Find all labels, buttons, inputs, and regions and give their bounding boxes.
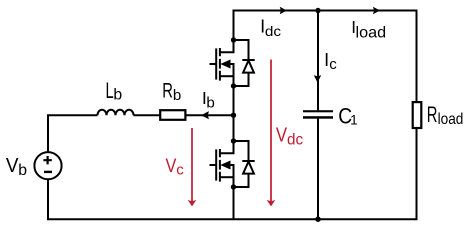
transistor Q2 (lower MOSFET) (210, 138, 255, 189)
voltage arrow Vdc (red, pointing down) (267, 60, 276, 207)
svg-text:b: b (173, 87, 181, 104)
svg-text:R: R (427, 102, 438, 127)
wire: inductor to resistor Rb (134, 114, 161, 116)
voltage source Vb (34, 152, 61, 179)
svg-text:1: 1 (350, 112, 358, 127)
current arrow Iload (pointing right) (373, 7, 380, 14)
svg-text:V: V (276, 125, 288, 147)
resistor Rb (160, 110, 185, 120)
node: Q2 source junction (231, 184, 236, 189)
wire: capacitor C1 to bottom rail (317, 119, 319, 219)
capacitor C1 (303, 110, 333, 119)
resistor Rload (413, 102, 422, 128)
svg-text:c: c (176, 162, 184, 179)
wire: Q2 source to bottom rail (233, 187, 235, 219)
svg-text:b: b (18, 162, 27, 179)
transistor Q1 (upper MOSFET) (210, 37, 255, 88)
svg-text:dc: dc (287, 132, 303, 149)
node: Q1 source junction (231, 83, 236, 88)
svg-text:R: R (162, 80, 173, 103)
inductor Lb (98, 110, 134, 115)
svg-text:b: b (206, 94, 214, 111)
wire: resistor Rb to bridge midpoint (186, 114, 234, 116)
body diode D2 (234, 141, 255, 187)
polarity marks of Vb (43, 156, 52, 172)
node: bottom rail / capacitor junction (315, 217, 320, 222)
svg-text:c: c (329, 56, 337, 73)
current arrow Ic (pointing down) (314, 75, 321, 82)
wire: Vb negative lead, bottom rail, lower right vertical (48, 129, 417, 220)
svg-text:dc: dc (265, 23, 281, 39)
body diode D1 (234, 40, 255, 86)
node: top rail / capacitor junction (315, 8, 320, 13)
wire: bridge top vertical, top rail, upper right vertical (234, 11, 417, 102)
wire: Vb positive lead up and across to inductor (48, 115, 98, 152)
voltage arrow Vc (red, pointing down) (188, 128, 197, 206)
current arrow Ib (pointing left) (201, 111, 209, 119)
svg-text:load: load (438, 111, 464, 128)
svg-text:load: load (356, 23, 387, 41)
node: Q1 drain junction (231, 37, 236, 42)
current arrow Idc (pointing right) (280, 7, 287, 14)
node: bridge midpoint junction (231, 113, 236, 118)
svg-text:V: V (6, 155, 19, 177)
node: Q2 drain junction (231, 138, 236, 143)
svg-text:V: V (166, 155, 177, 177)
wire: Q1 source to Q2 drain (midpoint vertical) (233, 86, 235, 141)
wire: top rail to capacitor C1 (317, 11, 319, 111)
svg-text:b: b (113, 86, 122, 103)
